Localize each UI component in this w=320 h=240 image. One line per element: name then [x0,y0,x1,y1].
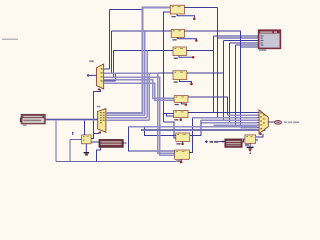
wire FF F6 Q output to mux M3 [188,111,258,113]
flip-flop F2 [171,29,197,41]
wire bus band line to mux M3 pin 4 [201,119,258,121]
port P2 [99,140,123,148]
wire mux M1 input vertical 2 / net to FF F2 D [104,31,172,73]
wire bus tap down to FF F7 D [144,127,176,136]
page boundary dash [2,38,18,40]
wire port P3 to FF F9 [242,139,245,142]
wire COUNT net into port P3 [219,141,225,143]
wire FF F9 to mux M3 bottom [256,134,263,137]
wire FF F0 D input from bottom rail [70,140,82,162]
wire FF F8 Q output up to bus [189,118,192,153]
wire FF F3 Q output down to bus [186,36,259,112]
wire port P2 bottom to rail [96,147,100,161]
wire FF F0 top feed from port net [84,120,86,135]
wire bus band line to mux M3 pin 2 [228,114,258,116]
flip-flop F6 [174,111,188,121]
label above mux M2 [97,106,101,108]
wire mux M1 bottom to FF F0 right pin [91,90,100,139]
wire bus pair down to FF F8 lower [104,77,175,155]
flip-flop F5 [174,96,188,106]
output pad O1 [275,121,300,125]
wire FF F0 to port P2 [91,141,99,143]
flip-flop F8 [175,150,190,163]
wire lavender bundle 4: mux M2 input 4 [106,73,149,120]
wire lavender bundle 1: FF F1 D / mux M2 input 1 [106,7,170,112]
wire mux M1 to FF F5 D upper [104,80,174,99]
wire mux M1 input vertical 3 / net to FF F3 D [104,51,173,77]
wire lavender bundle 2: mux M2 input 2 [106,31,145,115]
wire thick bus line under mux M3 [141,129,266,131]
node stub left of F0 top [72,133,74,136]
wire mux M1 to FF F5 D lower [104,83,174,100]
net name text right of O1 [284,121,287,123]
flip-flop F9 [245,135,256,154]
lavender bus wires [104,7,266,155]
wire FF F5 Q output down to bus [188,97,228,115]
wire FF F4 Q output down to bus [187,41,259,121]
wire bus pair down to FF F8 upper [104,73,175,153]
wire long bus line to mux M3 pin 7 [129,126,258,128]
mux M2 [97,106,106,134]
wire mux M1 input vertical 4 / net to FF F4 D [104,73,173,81]
ground under F0 [85,144,87,152]
flip-flop F3 [173,47,194,59]
wire port P2 right stub [123,142,126,144]
mux M1 [87,60,104,90]
input port P1 [20,114,45,126]
flip-flop F7 [176,133,190,145]
wire bus band line to mux M3 pin 3 [193,117,258,119]
label under P1 [23,125,27,126]
wire port P1 branch down to bottom rail [56,120,176,162]
wire mux M1 input vertical 1 [104,9,143,69]
wire FF F2 Q output to RAM [184,31,259,127]
wire FF F1 Q output to RAM [184,7,259,117]
wire clock line from FF F1 to FF F6 and FF F7 [164,12,176,138]
wire bus tap down to FF F8 D [129,127,175,152]
wire mux M3 input pin stubs [257,113,260,128]
flip-flop F1 [170,5,195,20]
wire FF F6 second input stub [167,114,174,116]
wire mux M3 output to pad O1 [268,121,274,123]
label above mux M1 [89,60,93,62]
wire bus band line to mux M3 pin 8 [241,127,258,129]
wire bus band line to mux M3 pin 6 [214,124,258,126]
mux M1 output stub with node [89,74,97,76]
flip-flop F4 [173,71,193,85]
wire bus vertical into RAM pin 5 [236,45,260,125]
port P3 [225,139,242,147]
RAM block R1 [259,30,281,51]
COUNT net label [205,140,226,143]
flip-flop F0 [72,132,91,156]
wire FF F7 Q output up to bus [190,120,201,136]
wire FF F9 lower right stub [256,139,258,141]
label under RAM [259,49,266,51]
wire lavender bundle 3: mux M2 input 3 [106,51,147,118]
wire mux M2 bottom stub [94,132,100,135]
wire bus band line to mux M3 pin 5 [202,122,258,124]
mux M3 [259,110,268,135]
wire bus vertical into RAM pin 4 [230,43,260,123]
wire port P1 to mux M2 [45,119,97,121]
ground under F9 [249,143,251,146]
